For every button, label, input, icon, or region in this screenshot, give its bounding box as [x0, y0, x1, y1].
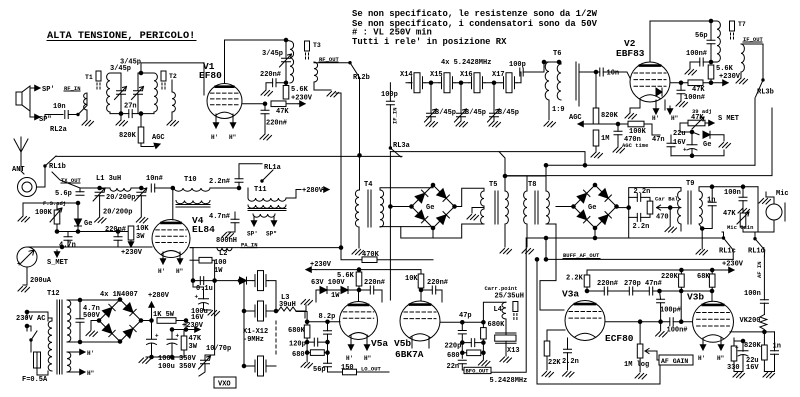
svg-text:680K: 680K: [288, 327, 306, 335]
wire tx from relay: [52, 172, 100, 188]
label 0.1u: [196, 285, 213, 293]
junction mains b: [25, 324, 29, 328]
wire vxo left: [205, 281, 215, 355]
wire t5 t8 link: [505, 175, 546, 177]
junction V2 plate: [709, 19, 713, 23]
diode inside V2: [656, 88, 662, 96]
junction 680 l: [305, 351, 309, 355]
svg-text:100p#: 100p#: [660, 307, 681, 315]
label Carr.point: [485, 285, 518, 292]
label 8.2p: [319, 313, 336, 321]
ground T4: [352, 250, 364, 256]
wire cap to RL2a: [69, 114, 79, 116]
label RL2a: [50, 126, 68, 134]
label X17: [492, 71, 505, 79]
microphone: [766, 203, 785, 221]
label 20/200p tx2: [103, 209, 132, 217]
wire T8 right bot: [540, 224, 564, 310]
junction fs2: [76, 230, 80, 234]
wire T5 tap: [472, 206, 484, 213]
svg-text:0.1u: 0.1u: [196, 285, 213, 293]
junction v2 grid div: [594, 70, 598, 74]
ground xf1: [426, 122, 438, 128]
svg-text:100: 100: [214, 259, 227, 267]
wire V4 heaters: [163, 252, 180, 262]
capacitor 100u 350V a: [147, 333, 160, 345]
resistor 10K v5b: [418, 270, 424, 288]
junction xf3: [492, 81, 496, 85]
label L1 3uH: [96, 175, 121, 183]
wire af chain: [587, 290, 712, 292]
label Mic Gain: [727, 224, 753, 231]
label 1W v5: [331, 292, 340, 300]
wire bridge minus: [91, 321, 99, 331]
transformer T10 primary: [174, 188, 210, 191]
wire T6 sec: [579, 72, 592, 106]
wire 22u v3b: [734, 341, 743, 372]
svg-text:1M log: 1M log: [624, 361, 649, 369]
svg-text:47n#: 47n#: [645, 280, 662, 288]
arrow +280V psu: [149, 302, 154, 313]
label BUFF_AF_OUT: [563, 252, 600, 259]
wire T6 top: [544, 62, 576, 120]
ground 22K: [542, 372, 554, 378]
label 100u 350V a: [158, 355, 197, 363]
svg-text:4x 5.2428MHz: 4x 5.2428MHz: [441, 59, 491, 67]
label 3/45p a: [110, 65, 131, 73]
label +230V v1: [291, 95, 313, 103]
label V1: [203, 61, 215, 72]
transformer T11 secondary: [253, 214, 275, 217]
ground meter: [18, 287, 30, 293]
wire mixer2 out: [617, 207, 629, 209]
junction psu3: [170, 328, 174, 332]
svg-text:H": H": [176, 268, 183, 275]
capacitor 100p rl2b: [386, 101, 394, 104]
junction tank2 bottom: [139, 112, 143, 116]
wire micpot: [743, 227, 755, 232]
junction T6 a: [542, 60, 546, 64]
junction 22u v3b: [741, 339, 745, 343]
svg-text:+: +: [683, 147, 687, 154]
ground 680K v5b: [478, 361, 490, 367]
svg-text:270p: 270p: [624, 280, 641, 288]
svg-text:AGC: AGC: [569, 114, 582, 122]
label PA_IN: [241, 242, 258, 249]
label +230V v4: [121, 249, 143, 257]
arrow S MET: [705, 120, 714, 125]
junction 120p r: [326, 340, 330, 344]
transformer T6 core: [576, 64, 579, 100]
label T4: [364, 181, 372, 189]
label 470n: [624, 136, 641, 144]
capacitor 56p v5a: [324, 363, 332, 366]
svg-text:AGC time: AGC time: [622, 142, 649, 149]
pot arrow 47K smet: [692, 117, 704, 129]
coil tank2: [154, 73, 157, 112]
junction 680 r: [326, 351, 330, 355]
svg-text:100u 350V: 100u 350V: [158, 363, 197, 371]
label SP2 t11: [266, 231, 277, 238]
wire 220n v5b: [421, 288, 442, 302]
wire 27n right: [132, 113, 141, 115]
label 100u: [191, 308, 208, 316]
transformer T10 secondary: [176, 201, 210, 204]
junction fs top: [76, 201, 80, 205]
slug T3: [305, 41, 310, 61]
wire trim tx2: [140, 196, 142, 217]
svg-text:H': H': [158, 268, 165, 275]
svg-text:2.2n: 2.2n: [633, 223, 650, 231]
svg-text:220p: 220p: [445, 343, 462, 351]
wire ant coax: [21, 163, 24, 174]
underline RF_OUT: [319, 61, 338, 63]
svg-text:4.7n: 4.7n: [59, 242, 76, 250]
wire input coil gnd: [86, 110, 88, 120]
resistor 47K 3W: [181, 336, 187, 352]
wire mains: [27, 312, 48, 331]
svg-text:T12: T12: [47, 290, 60, 298]
wire L1 right: [131, 187, 141, 189]
label 16V: [673, 139, 686, 147]
label 220n# v1 low: [266, 120, 287, 128]
label 1n v3b: [773, 343, 781, 351]
label RL1c: [719, 248, 736, 256]
wire v5a grid: [307, 321, 340, 323]
fuse F0.5A: [34, 352, 41, 368]
svg-text:RL1d: RL1d: [748, 248, 765, 256]
svg-text:H": H": [229, 134, 236, 141]
wire rf_out line: [314, 62, 350, 64]
svg-text:-9MHz: -9MHz: [243, 336, 264, 344]
svg-text:6BK7A: 6BK7A: [395, 349, 424, 360]
pot arrow mic: [737, 212, 749, 224]
label 1M: [601, 135, 609, 143]
underline RF_IN: [64, 90, 80, 92]
wire v3b out gnd: [764, 371, 774, 373]
capacitor 22n v5b: [458, 360, 466, 363]
svg-text:47K: 47K: [276, 108, 289, 116]
svg-text:100p: 100p: [381, 91, 398, 99]
label AF IN: [756, 261, 763, 278]
label 1M log: [624, 361, 649, 369]
junction vk200: [763, 330, 767, 334]
arrow 47K v1: [298, 101, 305, 107]
wire speaker: [30, 88, 33, 117]
slug T1: [96, 71, 101, 91]
crystal X2 mid: [253, 301, 269, 321]
svg-text:+280V: +280V: [302, 187, 324, 195]
junction af2: [679, 289, 683, 293]
svg-text:H': H': [698, 355, 705, 362]
label 4.7n# v4: [209, 213, 230, 221]
svg-text:Mic: Mic: [776, 190, 789, 198]
svg-text:2.2n: 2.2n: [562, 358, 579, 366]
svg-text:T5: T5: [489, 181, 497, 189]
svg-text:820K: 820K: [601, 112, 619, 120]
svg-text:5.2428MHz: 5.2428MHz: [490, 377, 528, 385]
arrow V1 h2: [230, 120, 235, 128]
wire trim tx1: [99, 196, 101, 217]
junction v3a plate: [585, 289, 589, 293]
junction t5 tap: [503, 174, 507, 178]
ground T9: [696, 250, 708, 256]
capacitor 470n: [614, 131, 622, 134]
wire rx bus: [56, 155, 402, 157]
label 22u: [673, 130, 686, 138]
tube V3a: [565, 301, 605, 341]
wire 100p v3b: [660, 291, 661, 322]
label 470K: [362, 251, 380, 259]
ground T5 right: [500, 249, 512, 255]
wire fs top: [23, 203, 78, 216]
resistor 5.6K v1: [283, 83, 289, 99]
svg-text:10n: 10n: [53, 103, 66, 111]
label 3/45p f1: [435, 109, 456, 117]
svg-text:120p: 120p: [289, 341, 306, 349]
svg-text:RL2b: RL2b: [353, 74, 370, 82]
arrow SP1: [33, 85, 40, 90]
junction 22u bot: [690, 154, 694, 158]
label RF_OUT: [319, 56, 340, 63]
transformer T3 primary: [290, 41, 294, 83]
svg-text:220n#: 220n#: [260, 71, 281, 79]
inductor L2: [217, 248, 232, 251]
wire 8.2p: [327, 322, 329, 342]
svg-text:AGC: AGC: [152, 134, 165, 142]
label 220n# af: [597, 280, 618, 288]
resistor 820K agc: [138, 114, 144, 143]
arrow v3b h1: [700, 342, 705, 350]
svg-text:100n: 100n: [744, 290, 761, 298]
svg-text:27n: 27n: [124, 103, 137, 111]
label 10K 3W: [136, 225, 149, 233]
svg-text:1:9: 1:9: [552, 106, 565, 114]
inductor L4: [502, 302, 506, 319]
resistor 47K mic: [740, 204, 746, 227]
label T12: [47, 290, 60, 298]
wire 680 v5a col: [307, 342, 327, 363]
wire L4 feed: [483, 302, 506, 322]
svg-text:# : VL 250V min: # : VL 250V min: [352, 28, 432, 38]
svg-text:220n#: 220n#: [266, 120, 287, 128]
svg-text:T7: T7: [738, 21, 746, 28]
wire 10/70p: [199, 355, 205, 376]
capacitor 100n t9: [739, 197, 747, 200]
svg-text:V5a: V5a: [371, 338, 388, 349]
ground 470n: [613, 148, 625, 154]
capacitor 220n# v1 low: [261, 110, 269, 113]
svg-text:3/45p: 3/45p: [120, 59, 141, 67]
junction v1 tank bot: [284, 81, 288, 85]
svg-text:+: +: [155, 333, 159, 340]
label 10/70p: [206, 345, 231, 353]
label 1W v4: [214, 267, 223, 275]
wire 22n v5b: [462, 364, 464, 370]
svg-text:56p: 56p: [695, 32, 708, 40]
wire T10 to relay: [210, 187, 239, 189]
junction af frame: [535, 258, 539, 262]
junction v5b plate: [419, 288, 423, 292]
wire 2.2n v3a: [567, 341, 569, 370]
svg-text:680: 680: [292, 351, 305, 359]
wire meter gnd: [23, 267, 27, 285]
svg-text:16V: 16V: [673, 139, 686, 147]
label -9MHz: [243, 336, 264, 344]
label AGC: [152, 134, 165, 142]
ground 100p v3b: [656, 332, 668, 338]
junction lo inj: [389, 205, 393, 209]
wire rl1c top: [722, 232, 724, 238]
resistor 100K fs: [54, 203, 60, 232]
note line 1: [352, 9, 598, 19]
wire af in: [763, 250, 765, 256]
label 470: [656, 214, 669, 222]
junction 585: [583, 164, 587, 168]
capacitor 4.7n# v4: [231, 219, 239, 222]
svg-text:820K: 820K: [119, 132, 137, 140]
label v5a H2: [364, 355, 371, 362]
svg-text:470: 470: [656, 214, 669, 222]
junction xf1: [429, 81, 433, 85]
label 5.6K v2: [716, 65, 734, 73]
wire V1 screen: [242, 103, 265, 105]
label 100 1W: [214, 259, 227, 267]
capacitor 4.7n psu: [76, 319, 84, 322]
resistor 5.6K v2: [708, 65, 714, 83]
transformer T11 winding1: [248, 198, 286, 201]
wire agc row: [596, 123, 618, 125]
ground trim tx1: [95, 218, 107, 224]
label 330: [727, 364, 740, 372]
arrow +230V psu: [193, 327, 200, 332]
wire psu mid: [172, 321, 199, 358]
wire 5.6p stub: [79, 188, 81, 192]
junction 8.2p top: [326, 320, 330, 324]
relay RL3a: [389, 147, 401, 157]
label 68K: [697, 273, 710, 281]
junction x3 l: [242, 364, 246, 368]
ground 4.7n#: [222, 233, 234, 239]
capacitor 100u 16V: [195, 294, 209, 305]
label 680 v5a: [292, 351, 305, 359]
label V1 H1: [211, 134, 218, 141]
capacitor 100n# v2a: [700, 58, 703, 66]
svg-text:T3: T3: [313, 42, 321, 49]
svg-text:V3a: V3a: [562, 289, 579, 300]
capacitor 10n v2: [600, 68, 603, 76]
label v3b H1: [698, 355, 705, 362]
junction x2 r: [274, 309, 278, 313]
label 100u 350V b: [158, 363, 197, 371]
label 100n afin: [744, 290, 761, 298]
transformer T5 left: [481, 191, 484, 224]
wire x1 out: [269, 281, 277, 311]
capacitor 2.2n#: [235, 179, 243, 182]
label SP2: [39, 116, 52, 124]
label 220n# v5b: [427, 279, 448, 287]
tube V1 EF80: [207, 84, 242, 119]
junction 680 v5b l: [461, 351, 465, 355]
wire T4 to mixer: [380, 185, 433, 228]
capacitor 220p: [471, 339, 474, 347]
ground xf2: [456, 122, 468, 128]
wire T3 sec: [314, 82, 331, 90]
resistor 47K v1: [271, 101, 298, 107]
wire 100p f: [520, 62, 544, 83]
wire IF_IN drop: [389, 83, 391, 148]
ground 470: [665, 227, 677, 233]
svg-text:VK200: VK200: [740, 317, 761, 325]
wire V2 cath: [630, 100, 665, 113]
label RL2b: [353, 74, 370, 82]
ground bridge: [86, 331, 98, 337]
label RL3a: [393, 142, 411, 150]
svg-text:Ge: Ge: [426, 204, 434, 212]
wire xf trim 2: [460, 83, 462, 121]
label 150: [341, 364, 354, 372]
wire xfilter links: [425, 82, 521, 84]
diode Ge smet: [703, 131, 710, 138]
tube V5a: [340, 302, 378, 340]
label 4.7n smet: [59, 242, 76, 250]
resistor 10K 3W: [128, 226, 134, 240]
label F.S.adj: [43, 200, 66, 207]
svg-text:H": H": [671, 115, 678, 122]
svg-text:220n#: 220n#: [364, 279, 385, 287]
svg-text:220n#: 220n#: [427, 279, 448, 287]
coil T2 out: [172, 92, 175, 112]
wire 100n t9: [742, 187, 744, 208]
label ECF80: [605, 333, 634, 344]
svg-text:100K: 100K: [629, 128, 647, 136]
junction V2 screen: [679, 81, 683, 85]
label 820K v2: [601, 112, 619, 120]
wire t8 drop: [545, 165, 547, 191]
label 39uH: [279, 301, 296, 309]
label 220n# v5a: [364, 279, 385, 287]
capacitor 220n# v1 top: [273, 79, 276, 87]
svg-text:3/45p: 3/45p: [435, 109, 456, 117]
svg-text:BFO_OUT: BFO_OUT: [466, 368, 490, 375]
wire rl1d top: [755, 187, 758, 239]
junction 220p l: [461, 341, 465, 345]
capacitor 8.2p: [324, 331, 332, 334]
svg-text:H": H": [87, 370, 94, 377]
svg-text:Mic Gain: Mic Gain: [727, 224, 753, 231]
transformer T10 core: [176, 205, 210, 208]
svg-text:Tutti i rele' in posizione RX: Tutti i rele' in posizione RX: [352, 37, 507, 47]
coax connector: [18, 178, 37, 197]
label V5b: [394, 338, 411, 349]
svg-text:Carr.point: Carr.point: [485, 285, 518, 292]
label 47K v1: [276, 108, 289, 116]
svg-text:10/70p: 10/70p: [206, 345, 231, 353]
wire T7 top: [711, 20, 717, 22]
wire afgain link: [654, 351, 659, 360]
wire 22u diode: [692, 132, 699, 135]
label 22K v3a: [548, 359, 561, 367]
underline TX_OUT: [61, 182, 80, 184]
junction mains a: [25, 310, 29, 314]
ground L3 node: [301, 300, 313, 306]
label 5.6K v5: [337, 272, 355, 280]
wire 100 down: [212, 260, 215, 280]
label X13: [507, 347, 520, 355]
transformer T7 secondary: [741, 44, 744, 72]
wire vxo top: [215, 280, 238, 282]
wire T9 gnd: [699, 224, 702, 249]
